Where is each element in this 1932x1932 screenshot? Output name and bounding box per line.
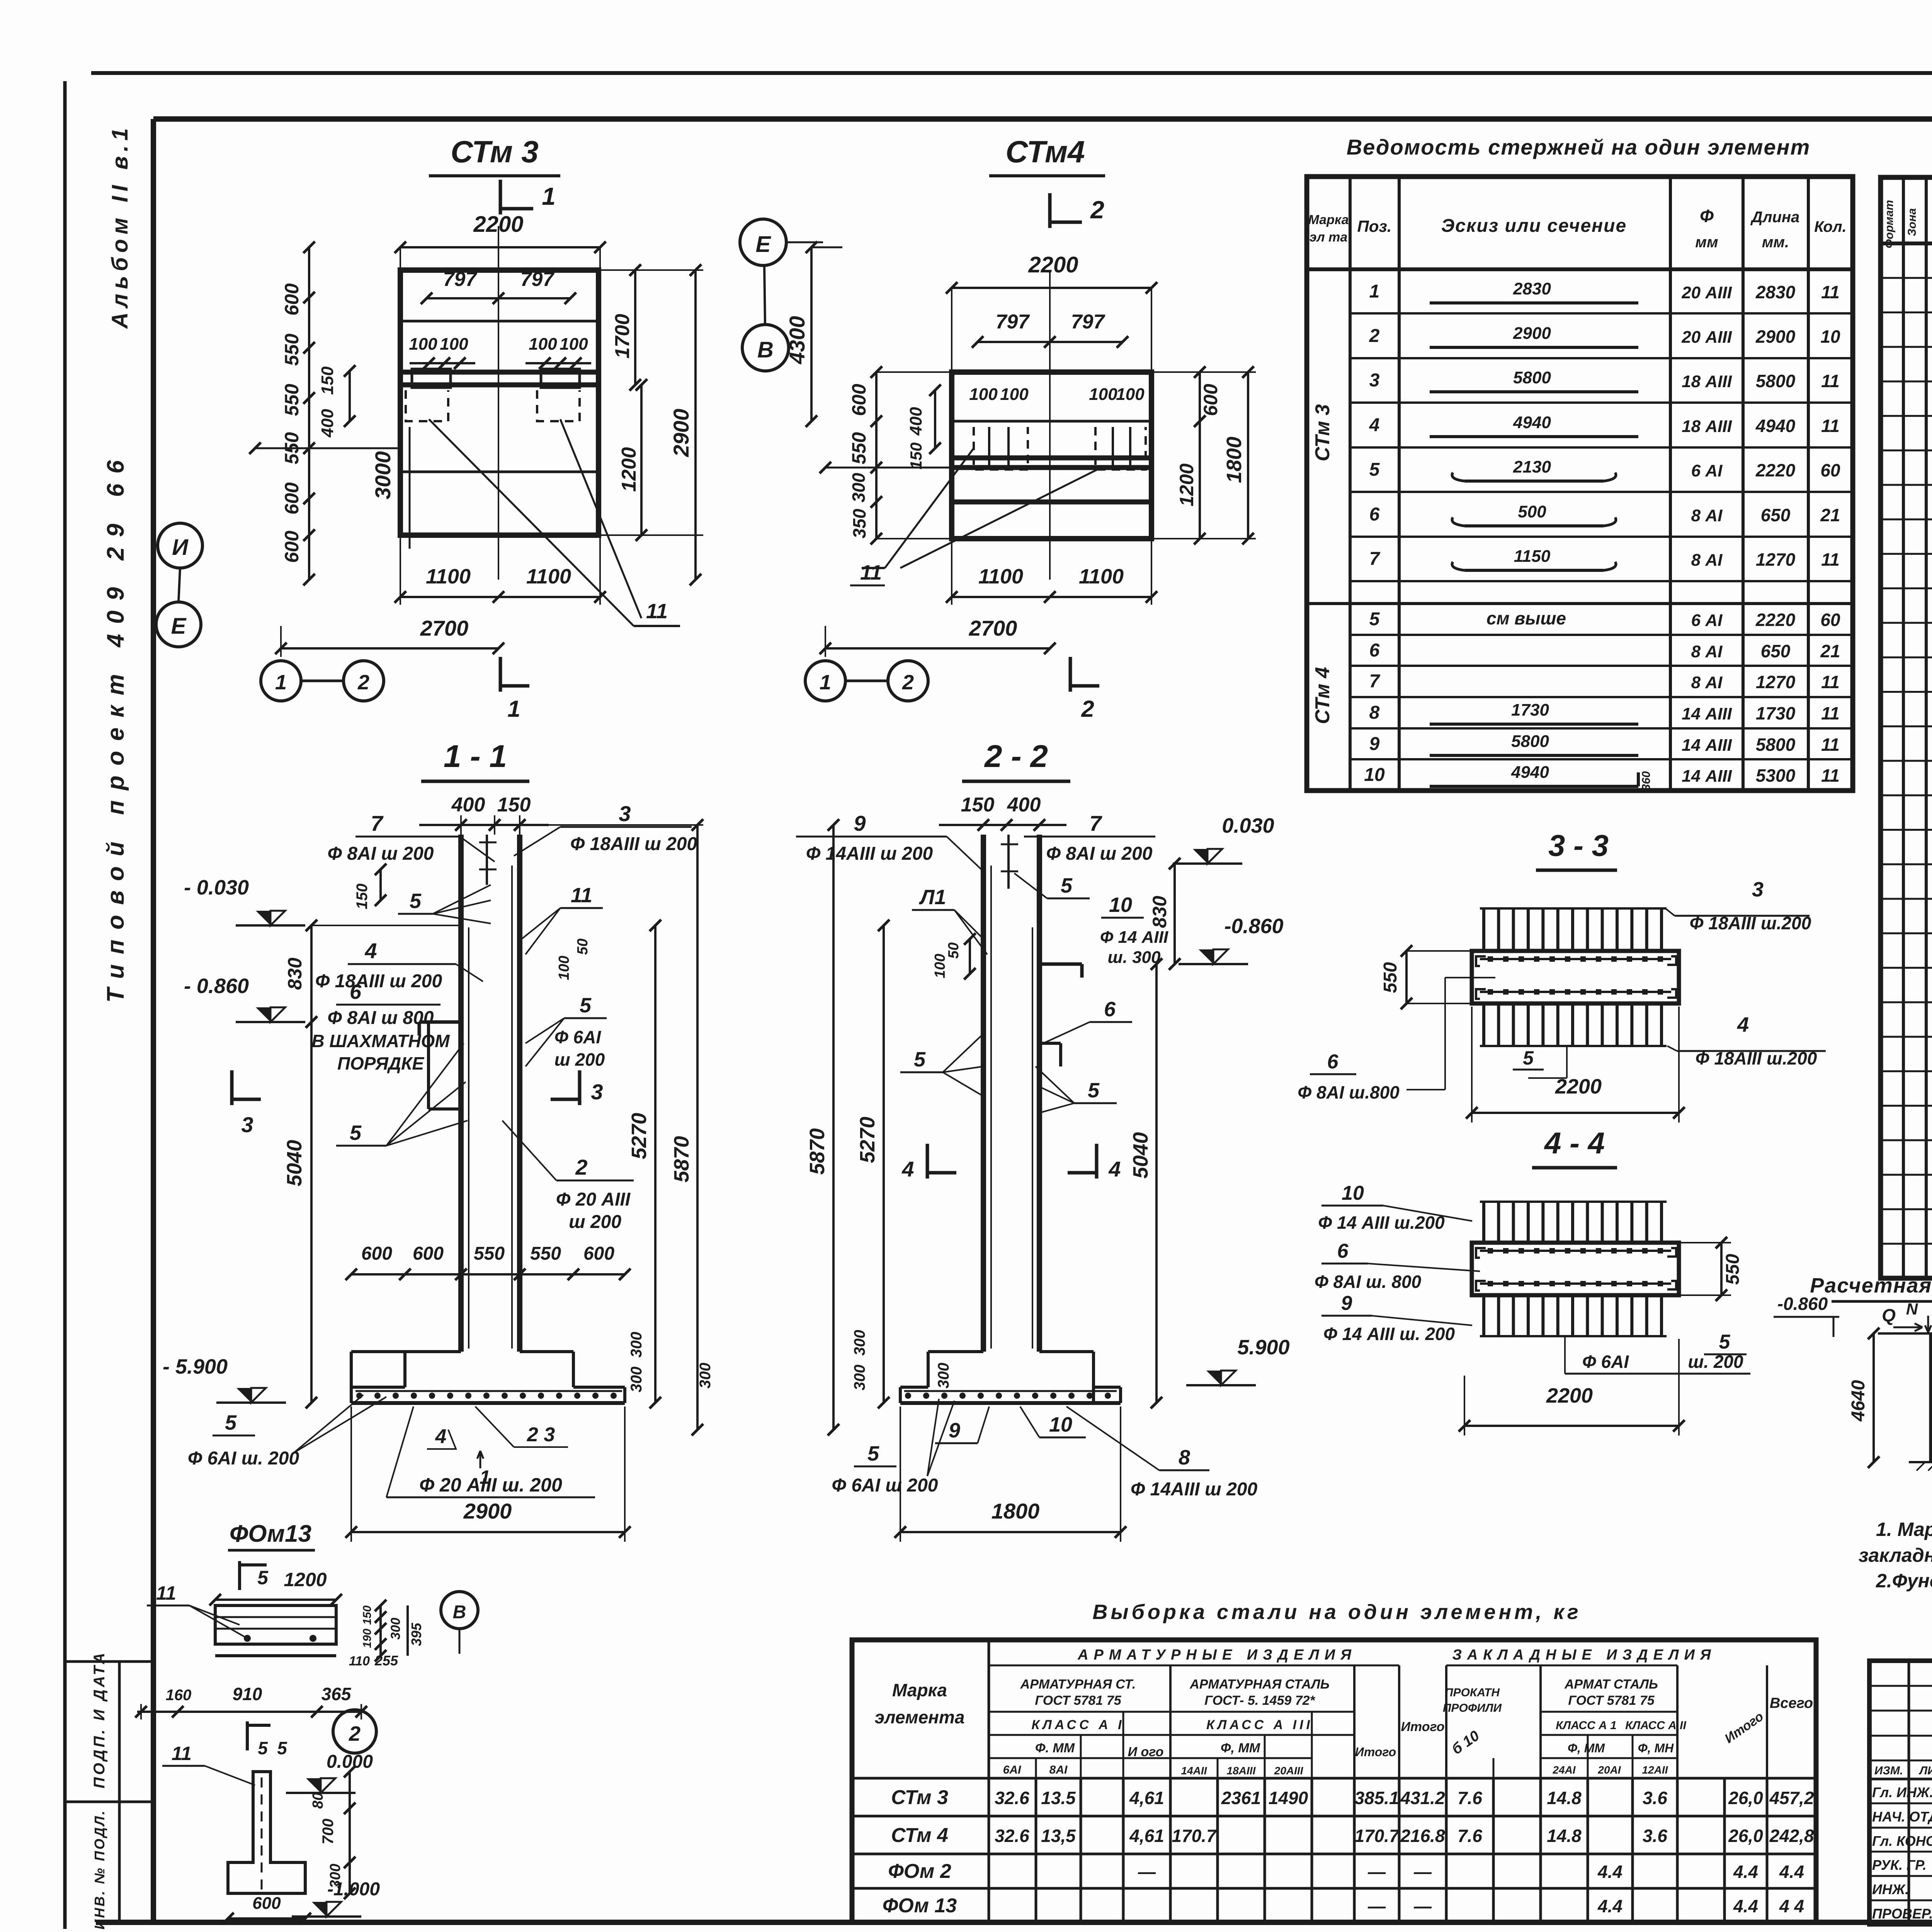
svg-text:14 АIII: 14 АIII [1682, 767, 1732, 786]
svg-text:3.6: 3.6 [1643, 1788, 1667, 1808]
svg-text:6: 6 [1337, 1240, 1349, 1262]
svg-text:- 0.860: - 0.860 [184, 975, 249, 998]
svg-text:Альбом II в.1: Альбом II в.1 [107, 124, 133, 330]
1-1 wall [458, 835, 464, 1352]
1-1 footing [351, 1350, 405, 1353]
dim 5270 (right) [654, 925, 656, 1403]
svg-text:300: 300 [628, 1332, 645, 1358]
svg-text:Формат: Формат [1883, 200, 1896, 248]
section 4 marks (2-2) [926, 1144, 929, 1179]
svg-text:550: 550 [848, 432, 870, 464]
svg-text:ПОРЯДКЕ: ПОРЯДКЕ [337, 1053, 424, 1073]
svg-text:1730: 1730 [1511, 701, 1549, 719]
svg-text:5300: 5300 [1756, 765, 1796, 786]
svg-text:Е: Е [756, 232, 772, 257]
svg-text:АРМАТУРНЫЕ ИЗДЕЛИЯ: АРМАТУРНЫЕ ИЗДЕЛИЯ [1077, 1647, 1357, 1663]
svg-text:1100: 1100 [426, 565, 471, 588]
svg-text:160: 160 [166, 1687, 192, 1704]
svg-text:24АI: 24АI [1552, 1764, 1576, 1776]
svg-text:600: 600 [281, 283, 303, 316]
svg-text:4: 4 [1369, 415, 1380, 435]
3-3 hooks at band ends [1476, 956, 1486, 966]
svg-text:385.1: 385.1 [1354, 1788, 1399, 1808]
svg-text:2: 2 [1369, 326, 1380, 346]
3-3 band rebar rows [1488, 956, 1493, 962]
section mark 5 5 (elevation) [246, 1721, 249, 1750]
выборка grid outer [852, 1640, 1816, 1922]
svg-text:5: 5 [1088, 1079, 1100, 1102]
svg-text:ИНВ. № ПОДЛ.: ИНВ. № ПОДЛ. [92, 1809, 107, 1929]
circle 2 (ФОм13 detail) [333, 1710, 376, 1753]
section mark 2 (bottom) [1069, 657, 1072, 692]
svg-text:21: 21 [1820, 505, 1840, 525]
svg-text:7: 7 [1369, 549, 1381, 569]
2-2 footing [928, 1350, 983, 1353]
svg-text:550: 550 [281, 333, 303, 366]
svg-text:ЗАКЛАДНЫЕ ИЗДЕЛИЯ: ЗАКЛАДНЫЕ ИЗДЕЛИЯ [1452, 1647, 1716, 1663]
svg-text:170.7: 170.7 [1354, 1826, 1400, 1846]
svg-text:- 0.030: - 0.030 [184, 876, 249, 899]
svg-text:Ф 14 АIII ш.200: Ф 14 АIII ш.200 [1318, 1213, 1445, 1233]
svg-text:3: 3 [619, 801, 631, 826]
svg-text:И: И [172, 535, 189, 560]
svg-text:СТм 4: СТм 4 [1311, 667, 1334, 724]
svg-text:В: В [453, 1602, 466, 1622]
svg-text:—: — [1413, 1862, 1432, 1882]
svg-text:21: 21 [1820, 641, 1840, 661]
1-1 wall top hooks [486, 835, 488, 885]
svg-text:Всего: Всего [1770, 1695, 1813, 1711]
4-4 band [1472, 1243, 1679, 1295]
svg-text:8 АI: 8 АI [1691, 673, 1723, 692]
svg-text:ЛИСТ: ЛИСТ [1918, 1764, 1932, 1777]
embed СТм4 left [974, 427, 1028, 469]
svg-text:Ф 6АI: Ф 6АI [1582, 1352, 1629, 1372]
svg-text:ш 200: ш 200 [569, 1212, 621, 1232]
svg-text:Зона: Зона [1906, 208, 1918, 236]
svg-text:—: — [1367, 1862, 1386, 1882]
svg-text:26,0: 26,0 [1728, 1826, 1763, 1846]
svg-text:797: 797 [1071, 311, 1105, 333]
title block outer [1869, 1661, 1932, 1924]
svg-text:-0.860: -0.860 [1777, 1294, 1828, 1314]
svg-text:10: 10 [1820, 327, 1840, 347]
svg-text:ш. 300: ш. 300 [1108, 948, 1161, 967]
svg-text:см выше: см выше [1486, 608, 1566, 628]
svg-text:910: 910 [233, 1684, 262, 1704]
svg-text:100: 100 [1089, 385, 1117, 404]
svg-text:170.7: 170.7 [1172, 1826, 1217, 1846]
svg-text:14.8: 14.8 [1547, 1826, 1582, 1846]
СТм4 left dim chain [875, 372, 878, 539]
СТм4 axis circle 1 [805, 661, 845, 701]
dim 830 (2-2 right) [1173, 864, 1176, 964]
svg-text:2220: 2220 [1755, 610, 1796, 630]
svg-text:8 АI: 8 АI [1691, 551, 1723, 570]
svg-text:1270: 1270 [1756, 672, 1796, 692]
svg-text:Поз.: Поз. [1357, 217, 1392, 235]
svg-text:300: 300 [327, 1864, 344, 1888]
svg-text:6 АI: 6 АI [1691, 461, 1723, 480]
svg-text:1100: 1100 [1079, 565, 1124, 588]
svg-text:1100: 1100 [526, 565, 571, 588]
svg-text:3: 3 [1752, 878, 1764, 901]
svg-text:600: 600 [252, 1894, 281, 1913]
схема3 dim 4640 [1872, 1333, 1875, 1462]
svg-text:700: 700 [320, 1819, 337, 1845]
svg-text:КЛАСС А II: КЛАСС А II [1625, 1719, 1686, 1732]
svg-text:365: 365 [321, 1684, 352, 1704]
section mark 2 (top) [1048, 193, 1052, 228]
svg-text:Ф 20 АIII: Ф 20 АIII [556, 1189, 631, 1210]
svg-text:4640: 4640 [1848, 1380, 1869, 1422]
svg-text:32.6: 32.6 [995, 1826, 1029, 1846]
svg-text:360: 360 [1640, 771, 1653, 791]
svg-text:КЛАСС А III: КЛАСС А III [1206, 1718, 1313, 1732]
svg-text:ГОСТ 5781 75: ГОСТ 5781 75 [1035, 1693, 1121, 1708]
svg-text:14.8: 14.8 [1547, 1788, 1582, 1808]
sheet outer top border line [91, 71, 1932, 75]
svg-text:50: 50 [946, 942, 962, 959]
footing rebar dots (2-2) [905, 1393, 911, 1399]
svg-text:4.4: 4.4 [1779, 1862, 1804, 1882]
svg-text:11: 11 [1821, 703, 1840, 723]
3-3 bottom comb bars [1482, 1003, 1485, 1046]
svg-text:100: 100 [409, 335, 437, 354]
svg-text:Ф 18АIII ш 200: Ф 18АIII ш 200 [315, 971, 442, 992]
svg-text:1200: 1200 [284, 1569, 327, 1590]
ledge right at -0.860 (2-2) [1039, 963, 1082, 966]
sheet outer left border line [63, 81, 67, 1929]
svg-text:СТм 3: СТм 3 [891, 1786, 948, 1809]
svg-text:431.2: 431.2 [1400, 1788, 1445, 1808]
svg-text:Ф 18АIII ш 200: Ф 18АIII ш 200 [570, 834, 697, 854]
svg-text:650: 650 [1761, 505, 1791, 525]
svg-text:СТм4: СТм4 [1005, 134, 1085, 169]
svg-text:1700: 1700 [611, 314, 634, 359]
svg-text:ПРОФИЛИ: ПРОФИЛИ [1443, 1702, 1502, 1714]
svg-text:Марка: Марка [892, 1680, 947, 1700]
svg-text:Ведомость стержней на один эле: Ведомость стержней на один элемент [1347, 135, 1811, 159]
svg-text:18АIII: 18АIII [1227, 1765, 1256, 1777]
svg-text:14АII: 14АII [1181, 1765, 1207, 1777]
svg-text:4 4: 4 4 [1779, 1896, 1804, 1916]
svg-text:4: 4 [435, 1425, 447, 1448]
СТм4 axis circle 2 [888, 661, 928, 701]
svg-text:150: 150 [361, 1605, 374, 1625]
svg-text:Ф 14 АIII: Ф 14 АIII [1100, 928, 1168, 947]
svg-text:350: 350 [849, 509, 869, 538]
svg-text:мм: мм [1695, 234, 1718, 251]
svg-text:Длина: Длина [1750, 209, 1800, 226]
step in wall (2-2) [1039, 1042, 1061, 1045]
svg-text:5040: 5040 [1129, 1132, 1152, 1179]
svg-text:5870: 5870 [806, 1128, 829, 1175]
svg-text:5: 5 [258, 1738, 268, 1758]
inner frame border [153, 116, 1932, 122]
svg-text:830: 830 [284, 957, 306, 990]
svg-text:10: 10 [1342, 1182, 1364, 1204]
svg-text:НАЧ. ОТД.: НАЧ. ОТД. [1872, 1809, 1932, 1825]
svg-text:150: 150 [354, 884, 371, 910]
svg-text:5270: 5270 [856, 1117, 879, 1163]
svg-text:20АI: 20АI [1597, 1764, 1621, 1776]
svg-text:4.4: 4.4 [1733, 1862, 1758, 1882]
svg-text:100: 100 [1000, 385, 1029, 404]
svg-text:Ф 8АI ш 800: Ф 8АI ш 800 [328, 1008, 434, 1028]
svg-text:190: 190 [361, 1629, 374, 1648]
svg-text:13,5: 13,5 [1041, 1826, 1076, 1846]
svg-text:5.900: 5.900 [1237, 1336, 1289, 1359]
3-3 top comb bars [1482, 908, 1485, 951]
svg-text:ФОм 2: ФОм 2 [888, 1860, 951, 1883]
title block left rows [1869, 1685, 1932, 1687]
svg-text:11: 11 [1821, 282, 1840, 302]
svg-text:5: 5 [1369, 609, 1380, 629]
svg-text:500: 500 [1518, 502, 1546, 521]
svg-text:Ф: Ф [1700, 206, 1714, 226]
svg-text:-0.860: -0.860 [1224, 915, 1283, 938]
svg-text:2220: 2220 [1755, 460, 1796, 480]
svg-text:14 АIII: 14 АIII [1682, 736, 1732, 755]
svg-text:100: 100 [560, 335, 588, 354]
axis mark circle И [158, 523, 202, 568]
svg-text:5: 5 [1369, 459, 1380, 480]
svg-text:И ого: И ого [1128, 1745, 1164, 1759]
схема3 ground hatch [1909, 1461, 1932, 1463]
svg-text:5870: 5870 [670, 1136, 693, 1182]
svg-text:13.5: 13.5 [1041, 1788, 1076, 1808]
svg-text:5: 5 [257, 1567, 269, 1588]
svg-text:10: 10 [1364, 765, 1385, 785]
svg-text:—: — [1367, 1896, 1386, 1916]
svg-text:11: 11 [1821, 735, 1840, 755]
svg-text:ПОДП. И ДАТА: ПОДП. И ДАТА [91, 1651, 108, 1789]
svg-text:1: 1 [507, 696, 520, 722]
svg-text:255: 255 [374, 1653, 398, 1668]
svg-text:550: 550 [1380, 962, 1401, 993]
embed СТм4 right [1095, 427, 1146, 469]
выборка header lines [989, 1665, 1399, 1667]
svg-text:5800: 5800 [1756, 735, 1796, 755]
svg-text:3000: 3000 [371, 451, 395, 500]
svg-text:2700: 2700 [420, 616, 469, 640]
svg-text:12АII: 12АII [1642, 1764, 1668, 1776]
СТм4 right dims 600/1200 [1199, 372, 1201, 421]
svg-text:Кол.: Кол. [1814, 218, 1847, 235]
СТм4 axis extension line left [825, 467, 952, 469]
svg-text:Эскиз или сечение: Эскиз или сечение [1441, 216, 1627, 236]
svg-text:11: 11 [156, 1582, 176, 1604]
dim 5870 (right) [696, 825, 699, 1430]
svg-text:8 АI: 8 АI [1691, 506, 1723, 525]
section mark 1 (bottom) [499, 657, 502, 692]
svg-text:550: 550 [474, 1243, 505, 1264]
svg-text:2900: 2900 [463, 1499, 512, 1523]
svg-text:5270: 5270 [628, 1113, 651, 1159]
svg-text:300: 300 [628, 1367, 645, 1393]
svg-text:150: 150 [907, 442, 925, 469]
2-2 wall [981, 835, 986, 1352]
dim 5270 (2-2 left) [883, 925, 885, 1403]
svg-text:6: 6 [1369, 504, 1380, 525]
svg-text:2: 2 [357, 671, 369, 694]
svg-text:550: 550 [281, 384, 303, 416]
svg-text:26,0: 26,0 [1728, 1788, 1763, 1808]
svg-text:9: 9 [1369, 734, 1380, 754]
svg-text:2361: 2361 [1221, 1788, 1261, 1808]
svg-text:Ф 14АIII ш 200: Ф 14АIII ш 200 [1131, 1479, 1258, 1500]
dim 830 (left) [310, 925, 313, 1022]
svg-text:5: 5 [410, 889, 422, 913]
svg-text:11: 11 [646, 600, 668, 623]
section mark 1 (top) [499, 180, 502, 214]
svg-text:457,2: 457,2 [1769, 1788, 1814, 1808]
svg-text:2830: 2830 [1755, 282, 1796, 302]
svg-text:Ф 6АI: Ф 6АI [554, 1027, 601, 1047]
svg-text:2700: 2700 [969, 616, 1017, 640]
svg-text:797: 797 [520, 268, 555, 291]
svg-text:5: 5 [1719, 1331, 1731, 1353]
svg-text:0.000: 0.000 [327, 1752, 373, 1772]
axis mark circle Е [156, 602, 201, 647]
svg-text:СТм 4: СТм 4 [891, 1824, 948, 1847]
svg-text:1490: 1490 [1269, 1788, 1308, 1808]
svg-text:7.6: 7.6 [1458, 1826, 1482, 1846]
svg-text:АРМАТУРНАЯ СТАЛЬ: АРМАТУРНАЯ СТАЛЬ [1189, 1677, 1330, 1692]
svg-text:Типовой проект 409 29 66: Типовой проект 409 29 66 [102, 450, 129, 1003]
svg-text:4: 4 [1108, 1157, 1121, 1181]
svg-text:2: 2 [902, 671, 914, 694]
dim 5040 (left) [310, 1022, 313, 1403]
svg-text:8АI: 8АI [1049, 1764, 1068, 1776]
svg-text:2: 2 [575, 1155, 587, 1179]
svg-text:60: 60 [1820, 610, 1840, 630]
section 3 marks (in 1-1) [230, 1070, 234, 1105]
step in wall (1-1) [427, 1022, 430, 1109]
svg-text:11: 11 [172, 1743, 192, 1764]
svg-text:600: 600 [281, 531, 303, 563]
svg-text:Ф 8АI ш.800: Ф 8АI ш.800 [1298, 1082, 1400, 1102]
СТм3 bottom extension lines [400, 535, 401, 605]
svg-text:3 - 3: 3 - 3 [1548, 828, 1609, 862]
svg-text:—: — [1138, 1862, 1156, 1882]
ФОм13 plan body [215, 1605, 336, 1644]
svg-text:242,8: 242,8 [1769, 1826, 1814, 1846]
svg-text:Ф, ММ: Ф, ММ [1568, 1741, 1605, 1755]
svg-text:5800: 5800 [1513, 368, 1551, 387]
svg-text:8: 8 [1369, 702, 1380, 723]
svg-text:20 АIII: 20 АIII [1681, 328, 1732, 347]
СТм3 right dim 1700 [634, 270, 636, 385]
svg-text:600: 600 [848, 384, 870, 416]
svg-text:10: 10 [1109, 893, 1132, 917]
СТм3 left dim chain [308, 247, 310, 580]
svg-text:11: 11 [1821, 416, 1840, 436]
svg-text:Ф 6АI ш. 200: Ф 6АI ш. 200 [188, 1448, 299, 1469]
svg-text:7.6: 7.6 [1458, 1788, 1482, 1808]
svg-text:Е: Е [171, 614, 187, 639]
svg-text:600: 600 [413, 1243, 444, 1264]
svg-text:2830: 2830 [1513, 279, 1551, 298]
svg-text:8 АI: 8 АI [1691, 642, 1723, 661]
svg-text:3: 3 [591, 1080, 603, 1104]
svg-text:2900: 2900 [1513, 324, 1551, 343]
svg-text:СТм 3: СТм 3 [451, 134, 539, 169]
svg-text:ФОм13: ФОм13 [230, 1520, 311, 1547]
svg-text:11: 11 [1821, 371, 1840, 391]
svg-text:4: 4 [1737, 1013, 1749, 1036]
svg-text:2200: 2200 [1546, 1384, 1593, 1407]
svg-text:216.8: 216.8 [1400, 1826, 1445, 1846]
СТм3 axis extension line left [255, 447, 400, 449]
svg-text:50: 50 [575, 939, 591, 955]
svg-text:1: 1 [275, 671, 287, 694]
svg-text:ФОм 13: ФОм 13 [883, 1895, 957, 1917]
svg-text:400: 400 [451, 794, 485, 816]
svg-text:Ф 20 АIII ш. 200: Ф 20 АIII ш. 200 [419, 1474, 562, 1496]
svg-text:6АI: 6АI [1003, 1764, 1021, 1776]
svg-text:100: 100 [529, 335, 557, 354]
svg-text:4 - 4: 4 - 4 [1544, 1126, 1605, 1160]
svg-text:—: — [1413, 1896, 1432, 1916]
section mark 5 (ФОм13 plan) [238, 1561, 241, 1590]
leader 11 (СТм3) [429, 419, 634, 626]
svg-text:2: 2 [349, 1722, 361, 1745]
svg-text:100: 100 [440, 335, 468, 354]
svg-text:Q: Q [1882, 1305, 1896, 1325]
dim 5870 (2-2 left) [832, 825, 835, 1430]
label 1 arrow [477, 1451, 483, 1468]
svg-text:5040: 5040 [283, 1140, 306, 1186]
svg-text:СТм 3: СТм 3 [1311, 404, 1334, 461]
svg-text:4: 4 [901, 1157, 914, 1181]
svg-text:Ф 18АIII ш.200: Ф 18АIII ш.200 [1696, 1048, 1817, 1068]
svg-text:100: 100 [556, 956, 572, 980]
left margin column line [118, 1662, 121, 1922]
4-4 top comb [1482, 1202, 1485, 1243]
svg-text:10: 10 [1049, 1413, 1072, 1436]
svg-text:3.6: 3.6 [1643, 1826, 1667, 1846]
svg-text:11: 11 [860, 561, 882, 584]
svg-text:5: 5 [225, 1411, 237, 1434]
svg-text:7: 7 [1369, 671, 1381, 692]
svg-text:2900: 2900 [669, 409, 693, 457]
svg-text:9: 9 [1341, 1292, 1352, 1315]
svg-text:4940: 4940 [1513, 413, 1551, 432]
svg-text:1200: 1200 [1176, 463, 1197, 506]
svg-text:600: 600 [583, 1243, 614, 1264]
svg-text:5: 5 [1523, 1047, 1534, 1069]
схема3 column [1929, 1333, 1932, 1462]
svg-text:ИЗМ.: ИЗМ. [1874, 1764, 1903, 1777]
svg-text:2900: 2900 [1755, 327, 1796, 347]
svg-text:ГОСТ- 5. 1459 72*: ГОСТ- 5. 1459 72* [1204, 1693, 1315, 1708]
svg-text:5: 5 [580, 994, 592, 1017]
svg-text:9: 9 [854, 811, 866, 835]
svg-text:5: 5 [350, 1121, 362, 1145]
svg-text:2200: 2200 [1555, 1075, 1602, 1098]
СТм4 plan body [952, 372, 1151, 539]
svg-text:7: 7 [1089, 811, 1102, 835]
svg-text:14 АIII: 14 АIII [1682, 704, 1732, 723]
embed plates СТм3 (left) [412, 369, 451, 388]
svg-text:5: 5 [914, 1048, 926, 1071]
выборка data row lines [852, 1777, 1816, 1780]
svg-text:Ф 8АI ш 200: Ф 8АI ш 200 [328, 844, 434, 864]
svg-text:2 - 2: 2 - 2 [984, 739, 1048, 774]
svg-text:395: 395 [408, 1622, 424, 1646]
